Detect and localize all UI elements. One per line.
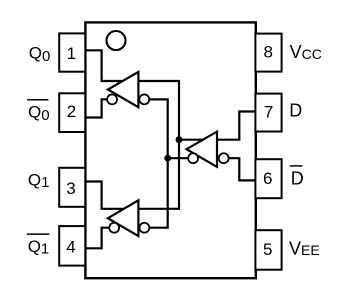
svg-text:VCC: VCC: [290, 42, 322, 62]
svg-text:6: 6: [263, 169, 272, 188]
svg-text:Q1: Q1: [28, 170, 50, 191]
svg-text:7: 7: [264, 103, 273, 122]
svg-text:3: 3: [66, 179, 75, 198]
svg-text:D: D: [291, 169, 304, 189]
svg-text:8: 8: [263, 43, 272, 62]
svg-text:D: D: [289, 101, 302, 121]
svg-text:VEE: VEE: [289, 239, 320, 259]
svg-text:Q1: Q1: [28, 237, 50, 258]
svg-text:4: 4: [66, 238, 75, 257]
svg-text:5: 5: [263, 240, 272, 259]
svg-text:2: 2: [67, 102, 76, 121]
svg-text:1: 1: [67, 44, 76, 63]
